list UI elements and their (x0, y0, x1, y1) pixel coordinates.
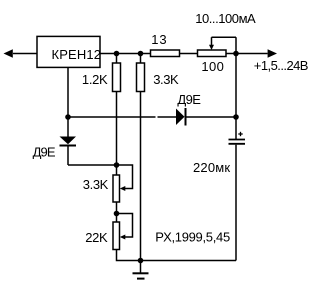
capacitor C1 220мк (193, 132, 245, 175)
wire R1.2K bottom to pot node (116, 92, 118, 176)
diode VD2 Д9Е horizontal (176, 92, 201, 126)
resistor 3.3K top (137, 63, 180, 92)
svg-text:+1,5...24В: +1,5...24В (254, 58, 308, 73)
svg-text:1.2K: 1.2K (82, 72, 108, 87)
output arrow (268, 49, 277, 57)
wire output node down to cap node (235, 54, 237, 140)
svg-text:13: 13 (151, 32, 167, 47)
svg-text:КРЕН12: КРЕН12 (52, 47, 102, 62)
wire mid rail left part (68, 116, 156, 118)
potentiometer 3.3K (83, 165, 133, 202)
potentiometer 22K (85, 214, 132, 250)
wire U1 bottom to mid rail (67, 67, 69, 137)
node junction pot2 top (114, 211, 120, 217)
node junction R1.2K top (114, 51, 120, 57)
wire VD1 cathode down (67, 147, 69, 166)
wire pot1 bottom to pot2 node (116, 202, 118, 222)
diode VD1 Д9Е vertical (33, 137, 76, 160)
svg-text:3.3K: 3.3K (153, 72, 179, 87)
regulator U1 КРЕН12 (37, 36, 101, 67)
resistor 13 (151, 32, 180, 56)
input arrow (4, 49, 38, 57)
potentiometer R100 (rheostat) (198, 37, 237, 74)
node junction mid-left (65, 114, 71, 120)
node junction ground (138, 258, 144, 264)
svg-text:220мк: 220мк (193, 160, 230, 175)
wire VD1 to pot chain (68, 164, 117, 166)
wire pot2 bottom to ground rail (117, 250, 237, 261)
svg-text:10...100мА: 10...100мА (195, 11, 256, 26)
svg-text:Д9Е: Д9Е (33, 145, 56, 160)
svg-text:100: 100 (201, 59, 224, 74)
wire diode to cap node (187, 116, 237, 118)
resistor 1.2K (82, 63, 121, 92)
wire R3.3K stub top (140, 54, 142, 64)
svg-text:3.3K: 3.3K (83, 177, 109, 192)
svg-text:Д9Е: Д9Е (177, 92, 201, 107)
ground (133, 261, 149, 279)
node junction cap top (233, 114, 239, 120)
wire R3.3K bottom long down to ground rail (140, 92, 142, 261)
wire top rail from U1 to R 13 (100, 53, 151, 55)
node junction output (233, 51, 239, 57)
node junction R3.3K top (138, 51, 144, 57)
svg-text:РХ,1999,5,45: РХ,1999,5,45 (155, 230, 230, 245)
wire cap bottom down to ground rail (235, 145, 237, 261)
node junction pot1 top (114, 162, 120, 168)
svg-text:22K: 22K (85, 230, 108, 245)
wire mid rail second part (158, 116, 177, 118)
wire R1.2K stub top (116, 54, 118, 64)
wire between R13 and R100 (180, 53, 198, 55)
wire R100 to output arrow (226, 53, 268, 55)
